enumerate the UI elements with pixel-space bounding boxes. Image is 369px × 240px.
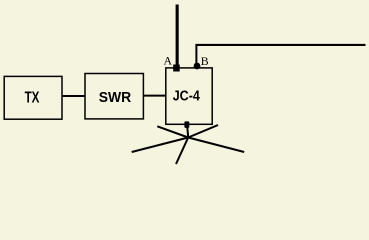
ground radial up-left — [157, 126, 188, 137]
antenna (vertical whip) — [176, 5, 179, 66]
node B junction dot — [194, 63, 201, 70]
wire ground stub — [187, 126, 188, 138]
ground radial right — [188, 138, 244, 153]
svg-text:SWR: SWR — [99, 89, 132, 106]
ground radial up-right — [188, 125, 218, 138]
box TX — [4, 76, 62, 119]
wire TX to SWR — [62, 95, 85, 97]
svg-text:TX: TX — [25, 90, 40, 107]
box JC-4 — [166, 68, 212, 124]
svg-text:B: B — [201, 54, 209, 68]
wire top horizontal feed line — [195, 44, 365, 46]
svg-text:JC-4: JC-4 — [173, 89, 200, 105]
svg-text:A: A — [164, 53, 173, 67]
ground radial left — [132, 138, 189, 153]
terminal A pad — [173, 65, 180, 72]
box SWR — [85, 74, 143, 119]
wire SWR to JC-4 — [143, 95, 166, 97]
ground radial down-left — [176, 138, 188, 165]
node ground junction pad — [184, 121, 189, 128]
wire B vertical — [195, 45, 197, 66]
